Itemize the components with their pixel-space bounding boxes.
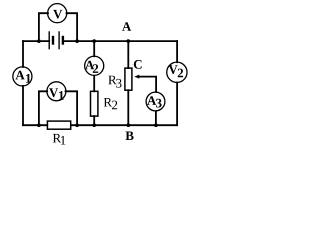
label R1 — [53, 134, 61, 143]
label R1 subscript — [61, 136, 66, 145]
node A label — [122, 22, 131, 31]
junction dot bottom R2 — [92, 123, 96, 127]
wire A2 branch top — [93, 41, 95, 56]
wire left rail lower — [22, 86, 24, 125]
ammeter A2 — [85, 56, 104, 75]
wire R3 to node B — [127, 90, 129, 125]
node B junction dot — [126, 123, 130, 127]
wire node A to R3 — [127, 41, 129, 68]
junction dot top A2 — [92, 39, 96, 43]
label R3 subscript — [116, 79, 121, 88]
wire top rail right of battery — [64, 40, 177, 42]
resistor R1 — [47, 121, 70, 129]
label V2 subscript — [178, 69, 183, 78]
label A2 subscript — [93, 64, 98, 73]
voltmeter V2 — [167, 62, 187, 82]
wire V1 left lead — [39, 91, 47, 125]
node A junction dot — [126, 39, 130, 43]
wire right rail lower — [176, 83, 178, 126]
wire bottom rail right of R1 — [71, 124, 177, 126]
voltmeter V1 — [47, 82, 66, 101]
junction dot bottom A3 — [154, 123, 158, 127]
label V2 — [169, 65, 178, 74]
label V1 — [49, 88, 58, 97]
junction dot top V right — [75, 39, 79, 43]
label A3 subscript — [156, 99, 162, 108]
ammeter A1 — [13, 67, 32, 86]
rheostat R3 — [125, 68, 132, 90]
wire top rail left of battery — [23, 40, 49, 42]
wire V1 right lead — [66, 91, 78, 125]
voltmeter V — [48, 4, 67, 23]
wire bottom rail left of R1 — [23, 124, 47, 126]
wire right rail upper — [176, 41, 178, 62]
wire voltmeter V left lead — [39, 13, 48, 41]
wire left rail upper — [22, 41, 24, 67]
wire R2 to bottom rail — [93, 116, 95, 125]
label A1 subscript — [26, 74, 31, 83]
label A1 — [15, 71, 24, 80]
node C label — [134, 60, 142, 69]
junction dot bottom V1 left — [37, 123, 41, 127]
node B label — [126, 132, 134, 141]
rheostat slider arrow — [134, 75, 139, 79]
label A3 — [147, 96, 156, 105]
wire A3 to bottom rail — [155, 111, 157, 125]
wire slider C to A3 — [139, 77, 156, 92]
label R3 — [108, 76, 116, 85]
resistor R2 — [91, 91, 98, 116]
label V1 subscript — [59, 91, 64, 100]
label V — [53, 10, 62, 19]
junction dot bottom V1 right — [75, 123, 79, 127]
label R2 subscript — [112, 101, 117, 110]
battery GB — [49, 31, 64, 49]
wire A2 to R2 — [93, 76, 95, 92]
ammeter A3 — [146, 92, 165, 111]
junction dot top V left — [37, 39, 41, 43]
label A2 — [85, 61, 94, 69]
label R2 — [104, 98, 112, 107]
wire voltmeter V right lead — [67, 13, 78, 41]
